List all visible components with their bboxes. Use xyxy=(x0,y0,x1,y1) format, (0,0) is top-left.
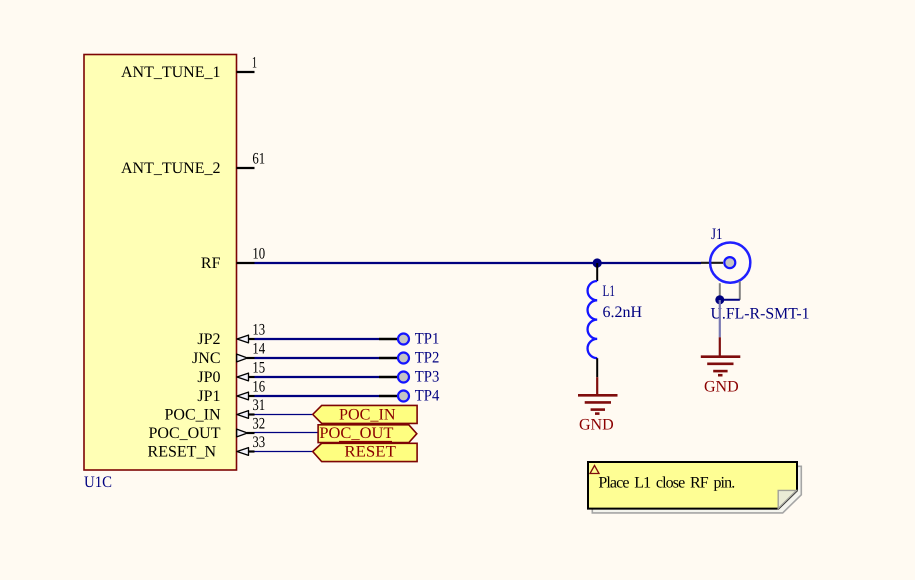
inductor L1 xyxy=(588,263,643,377)
svg-text:14: 14 xyxy=(252,341,265,358)
svg-text:RF: RF xyxy=(201,255,221,272)
svg-text:13: 13 xyxy=(252,322,265,339)
IC U1C body xyxy=(84,55,237,471)
svg-text:POC_OUT: POC_OUT xyxy=(319,425,393,442)
note Place L1 close RF pin. xyxy=(588,462,797,509)
wire RF net xyxy=(255,262,702,264)
junction J1 shield xyxy=(715,295,724,304)
svg-text:61: 61 xyxy=(252,151,265,168)
svg-text:J1: J1 xyxy=(711,226,723,243)
pin 32 POC_OUT xyxy=(148,416,265,443)
wire pin14 to TP2 xyxy=(255,357,380,359)
svg-text:31: 31 xyxy=(252,397,265,414)
svg-text:33: 33 xyxy=(252,434,265,451)
svg-text:Place L1 close RF pin.: Place L1 close RF pin. xyxy=(598,475,734,492)
svg-text:15: 15 xyxy=(252,360,265,377)
wire pin31 to POC_IN flag xyxy=(255,414,313,416)
svg-text:ANT_TUNE_2: ANT_TUNE_2 xyxy=(121,160,221,177)
ground GND (J1) xyxy=(701,337,741,395)
wire pin13 to TP1 xyxy=(255,338,380,340)
svg-text:U1C: U1C xyxy=(84,474,112,491)
pin 33 RESET_N xyxy=(148,434,266,461)
svg-text:TP2: TP2 xyxy=(415,350,440,367)
svg-text:ANT_TUNE_1: ANT_TUNE_1 xyxy=(121,64,221,81)
pin 31 POC_IN xyxy=(164,397,265,424)
svg-text:TP3: TP3 xyxy=(415,369,440,386)
svg-text:L1: L1 xyxy=(603,283,616,300)
svg-text:POC_IN: POC_IN xyxy=(164,407,220,424)
svg-text:JNC: JNC xyxy=(192,350,220,367)
port flag RESET xyxy=(313,443,417,461)
svg-text:GND: GND xyxy=(579,417,614,434)
pin 1 ANT_TUNE_1 xyxy=(121,55,257,82)
pin 14 JNC xyxy=(192,341,265,368)
port flag POC_IN xyxy=(313,405,417,423)
svg-text:10: 10 xyxy=(252,246,265,263)
port flag POC_OUT xyxy=(318,425,417,443)
note shadow xyxy=(592,466,801,513)
svg-text:U.FL-R-SMT-1: U.FL-R-SMT-1 xyxy=(711,306,810,323)
test point TP2 xyxy=(379,350,439,367)
wire pin32 to POC_OUT flag xyxy=(255,432,319,434)
wire pin33 to RESET flag xyxy=(255,451,313,453)
svg-text:TP1: TP1 xyxy=(415,331,440,348)
svg-text:16: 16 xyxy=(252,379,265,396)
svg-text:1: 1 xyxy=(252,55,257,72)
svg-text:JP2: JP2 xyxy=(197,331,220,348)
svg-text:JP1: JP1 xyxy=(197,388,220,405)
designator U1C xyxy=(84,474,112,491)
connector J1 xyxy=(701,226,810,323)
pin 15 JP0 xyxy=(197,360,265,387)
test point TP4 xyxy=(379,388,439,405)
svg-text:TP4: TP4 xyxy=(415,388,440,405)
pin 16 JP1 xyxy=(197,379,265,406)
test point TP1 xyxy=(379,331,439,348)
svg-text:POC_IN: POC_IN xyxy=(339,407,396,424)
wire J1 pins short xyxy=(720,299,740,301)
svg-text:32: 32 xyxy=(252,416,265,433)
svg-text:RESET_N: RESET_N xyxy=(148,444,217,461)
svg-text:JP0: JP0 xyxy=(197,369,220,386)
svg-text:RESET: RESET xyxy=(344,444,396,461)
junction RF/L1 xyxy=(593,258,602,267)
ground GND (L1) xyxy=(578,377,618,433)
pin 61 ANT_TUNE_2 xyxy=(121,151,265,178)
wire pin16 to TP4 xyxy=(255,395,380,397)
svg-text:GND: GND xyxy=(704,379,739,396)
pin 10 RF xyxy=(201,246,265,273)
pin 13 JP2 xyxy=(197,322,265,349)
wire pin15 to TP3 xyxy=(255,376,380,378)
test point TP3 xyxy=(379,369,439,386)
svg-text:6.2nH: 6.2nH xyxy=(603,304,643,321)
wire J1 to GND xyxy=(719,300,721,337)
svg-text:POC_OUT: POC_OUT xyxy=(148,425,220,442)
